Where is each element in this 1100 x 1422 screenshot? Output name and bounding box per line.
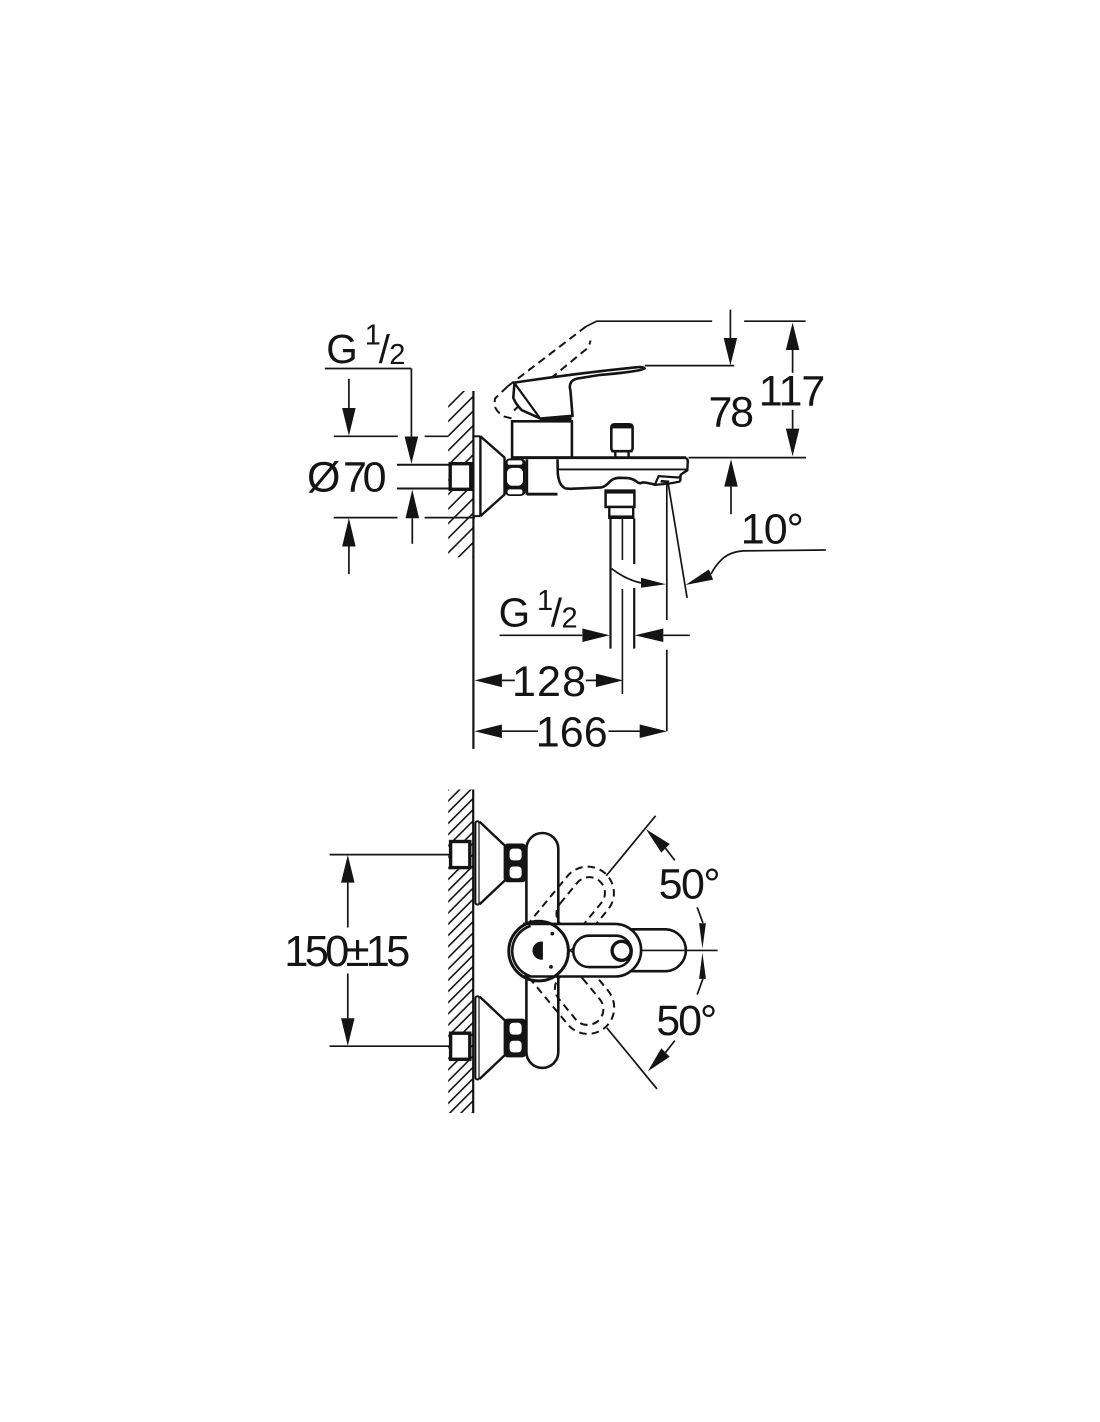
dia70 down arrow — [348, 379, 350, 408]
tiny x mark — [567, 947, 574, 954]
upper escutcheon flange (bottom view) — [475, 821, 479, 904]
solid lever handle — [513, 367, 644, 419]
wall face line (bottom view) — [472, 790, 474, 1114]
lower supply square (bottom view) — [451, 1033, 470, 1059]
solid handle: white underlay — [509, 921, 688, 981]
dashed swung handle (upper, -50deg) — [502, 856, 625, 989]
spout top extension line — [689, 457, 806, 459]
spout arm inner line — [559, 468, 687, 470]
outlet slot — [660, 480, 669, 483]
upper nut (bottom view) — [505, 845, 526, 882]
outlet vertical reference line — [666, 484, 668, 621]
dashed swung handle (lower, +50deg) — [502, 911, 625, 1044]
body right edge + spout underside + diverter dome — [558, 459, 656, 489]
dia70 up arrow — [342, 518, 356, 547]
upper escutcheon cone (bottom view) — [480, 822, 506, 904]
svg-text:50°: 50° — [656, 997, 717, 1045]
svg-text:78: 78 — [709, 389, 755, 437]
diverter knob — [611, 424, 632, 451]
upper 50deg diagonal line — [606, 816, 655, 876]
svg-text:150±15: 150±15 — [284, 928, 410, 976]
handle slot — [573, 936, 631, 967]
10deg left arc + arrow — [612, 569, 645, 584]
svg-text:G: G — [499, 590, 531, 636]
supply pipe lines (top view) — [397, 464, 450, 466]
dia70 upper extension line — [334, 435, 398, 437]
escutcheon flange connectors (top view) — [473, 435, 480, 437]
cap inner arc — [512, 926, 530, 976]
dia70 lower extension line — [334, 517, 398, 519]
G 1/2 mid label — [499, 585, 578, 636]
slot ring — [612, 941, 631, 960]
lower escutcheon cone (bottom view) — [480, 997, 506, 1079]
escutcheon cone (top view) — [480, 436, 504, 516]
lower nut (bottom view) — [505, 1020, 526, 1057]
G 1/2 top label — [326, 319, 405, 372]
50deg arc upper arrow — [697, 907, 703, 923]
svg-text:117: 117 — [759, 368, 826, 416]
svg-text:50°: 50° — [659, 861, 721, 909]
handle cap circle — [509, 921, 569, 981]
body lower block — [526, 459, 529, 495]
150 dim extension lines — [330, 854, 450, 856]
upper body block (cartridge housing) — [512, 421, 572, 457]
handle narrow blade outline — [630, 929, 686, 971]
spout arm top edge — [512, 456, 686, 459]
svg-text:128: 128 — [512, 658, 586, 706]
G1/2 mid dimension line + right arrow — [500, 634, 583, 636]
lower 50deg diagonal line — [607, 1028, 657, 1089]
svg-text:166: 166 — [536, 709, 608, 757]
knob stem — [611, 451, 632, 457]
lower 50deg leader + arrow — [666, 1041, 675, 1053]
wall hatching (top view) — [255, 380, 694, 600]
handle centreline — [641, 949, 717, 951]
wall hatching (bottom view) — [78, 780, 805, 1160]
G1/2 square nipple in wall (top view) — [450, 464, 471, 490]
svg-text:G: G — [326, 326, 358, 372]
78 top extension line — [645, 365, 734, 367]
hose nut B — [609, 507, 633, 518]
svg-text:Ø: Ø — [307, 453, 340, 501]
G1/2 lower up arrow — [406, 490, 420, 519]
svg-text:2: 2 — [389, 339, 405, 371]
spout right end edge — [680, 458, 688, 481]
G1/2 top label underline — [325, 368, 412, 370]
hex nut (top view) — [505, 458, 526, 496]
upper supply square (bottom view) — [451, 842, 470, 868]
hose nut A — [606, 491, 635, 507]
dashed raised lever — [494, 327, 590, 420]
handle wide capsule outline — [523, 924, 641, 977]
hose centre line — [621, 518, 623, 560]
10deg leader — [711, 550, 826, 574]
faucet body capsule (bottom view) — [526, 833, 558, 1068]
top max-height line (117 top) — [586, 321, 712, 326]
upper 50deg leader + arrow — [666, 848, 675, 860]
svg-text:2: 2 — [562, 602, 578, 634]
lever base dark strip — [540, 417, 572, 421]
aerator outlet piece — [655, 476, 681, 485]
svg-text:10°: 10° — [741, 506, 804, 554]
lever front chamfer edge — [515, 383, 540, 418]
svg-text:70: 70 — [343, 453, 387, 501]
cap crescent mark — [532, 941, 542, 959]
shower hose outer lines — [609, 518, 611, 648]
G1/2 mid left-pointing arrow + shaft — [635, 629, 663, 643]
slanted stream line (10 deg) — [668, 484, 687, 598]
G1/2 leader vertical + down arrow — [410, 369, 412, 437]
cap dots — [550, 932, 554, 936]
50deg arc lower arrow — [699, 953, 706, 979]
lower escutcheon flange (bottom view) — [475, 996, 479, 1079]
wall face line (top view) — [472, 391, 474, 749]
